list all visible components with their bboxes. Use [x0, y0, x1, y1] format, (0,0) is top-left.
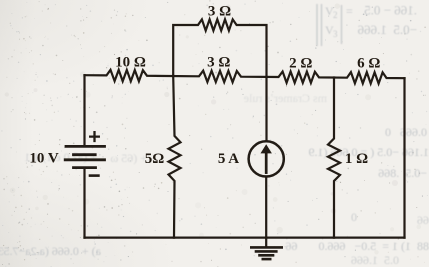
svg-text:3 Ω: 3 Ω — [207, 55, 230, 71]
svg-text:10 V: 10 V — [29, 150, 58, 166]
svg-text:2 Ω: 2 Ω — [289, 56, 312, 72]
svg-text:2: 2 — [333, 10, 338, 20]
svg-text:88 1) 1 = 5.0− 666.0: 88 1) 1 = 5.0− 666.0 66 — [285, 239, 429, 253]
svg-text:=: = — [346, 4, 353, 18]
svg-text:a) + 0.666 (a.2a−7.53: a) + 0.666 (a.2a−7.53 — [0, 244, 101, 258]
svg-text:5 A: 5 A — [218, 151, 239, 167]
svg-text:0.5 1.666: 0.5 1.666 — [351, 253, 399, 267]
svg-text:+ (65 ω: + (65 ω — [110, 151, 147, 165]
svg-text:10 Ω: 10 Ω — [115, 55, 146, 71]
svg-text:6 Ω: 6 Ω — [357, 56, 380, 72]
svg-text:3: 3 — [333, 29, 338, 39]
svg-text:5Ω: 5Ω — [145, 151, 165, 167]
svg-text:1 Ω: 1 Ω — [345, 151, 368, 167]
svg-text:−0.5 .866: −0.5 .866 — [378, 166, 427, 180]
svg-text:−0.5 1.666: −0.5 1.666 — [357, 22, 417, 37]
svg-text:ms Cramerʼs rule: ms Cramerʼs rule — [244, 91, 327, 105]
svg-text:0.666 0: 0.666 0 — [385, 125, 427, 139]
svg-text:0: 0 — [351, 210, 357, 224]
svg-text:66: 66 — [417, 213, 429, 227]
svg-text:3 Ω: 3 Ω — [208, 3, 231, 19]
svg-text:.166 − 0.5: .166 − 0.5 — [364, 3, 417, 18]
